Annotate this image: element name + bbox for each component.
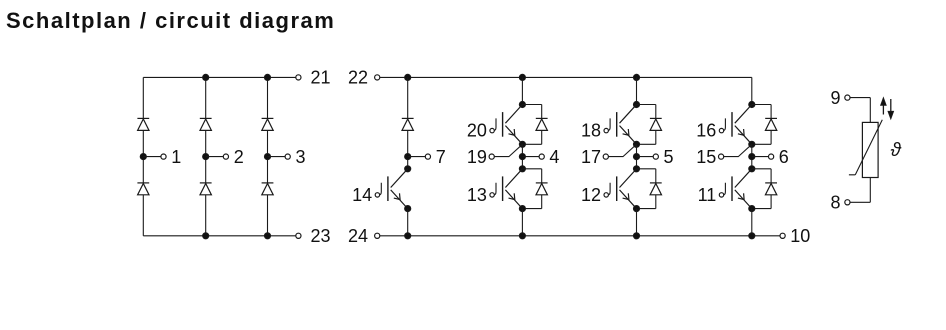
wire rectifier leg 3 middle	[267, 130, 269, 183]
wire rectifier leg 1 lower	[142, 195, 144, 236]
node emitter top IGBT 18	[633, 141, 639, 147]
wire to terminal 4	[522, 156, 539, 158]
transistor IGBT (gate pin 11)	[735, 169, 752, 209]
wire rectifier leg 2 lower	[205, 195, 207, 236]
terminal 7	[425, 154, 430, 159]
terminal 18 (gate)	[604, 128, 608, 132]
node phase tap 4	[519, 154, 525, 160]
terminal 9	[845, 95, 850, 100]
arrow down (temperature)	[890, 99, 892, 113]
wire collector stub leg 2	[636, 77, 638, 104]
transistor IGBT (gate pin 20)	[505, 105, 522, 145]
terminal 12 (gate)	[604, 193, 608, 197]
wire rectifier leg 3 upper	[267, 77, 269, 118]
svg-text:19: 19	[467, 147, 487, 167]
junction top rail	[264, 74, 270, 80]
node phase tap 6	[749, 154, 755, 160]
terminal 24	[375, 233, 380, 238]
transistor IGBT (gate pin 14)	[391, 169, 408, 209]
svg-text:1: 1	[171, 147, 181, 167]
svg-text:5: 5	[664, 147, 674, 167]
wire freewheel diode branch bottom leg 3	[752, 168, 771, 170]
node collector bottom IGBT 12	[633, 166, 639, 172]
junction bottom rail	[264, 233, 270, 239]
wire freewheel diode branch bottom leg 2	[637, 168, 656, 170]
svg-text:20: 20	[467, 121, 487, 141]
terminal 15 (aux emitter)	[719, 154, 724, 159]
diode freewheel bottom leg 3	[765, 182, 777, 184]
node collector top IGBT 20	[519, 101, 525, 107]
wire rectifier leg 1 middle	[142, 130, 144, 183]
terminal 13 (gate)	[490, 193, 494, 197]
node collector bottom IGBT 11	[749, 166, 755, 172]
diode D7 (chopper)	[402, 117, 414, 119]
node collector bottom IGBT 13	[519, 166, 525, 172]
terminal 1	[161, 154, 166, 159]
terminal 14 (gate)	[375, 193, 379, 197]
diode D6 (lower, phase 3)	[262, 182, 274, 184]
svg-text:12: 12	[581, 185, 601, 205]
svg-text:14: 14	[352, 185, 372, 205]
wire rectifier leg 1 upper	[142, 77, 144, 118]
junction top rail leg 1	[519, 74, 525, 80]
terminal 16 (gate)	[719, 128, 723, 132]
node phase tap 5	[633, 154, 639, 160]
svg-text:23: 23	[311, 226, 331, 246]
transistor IGBT (gate pin 18)	[620, 105, 637, 145]
svg-text:17: 17	[581, 147, 601, 167]
wire freewheel diode branch top leg 1	[522, 104, 541, 106]
wire to terminal 2	[206, 156, 224, 158]
node emitter top IGBT 16	[749, 141, 755, 147]
svg-text:13: 13	[467, 185, 487, 205]
node emitter bottom IGBT 11	[749, 206, 755, 212]
node emitter bottom IGBT 13	[519, 206, 525, 212]
thermistor R (NTC) body	[862, 122, 878, 177]
wire aux emitter 19	[494, 144, 522, 156]
terminal 6 (AC output)	[769, 154, 774, 159]
junction bottom rail leg 3	[749, 233, 755, 239]
terminal 3	[285, 154, 290, 159]
svg-text:18: 18	[581, 121, 601, 141]
terminal 4 (AC output)	[539, 154, 544, 159]
wire chopper upper	[407, 77, 409, 118]
wire rectifier leg 3 lower	[267, 195, 269, 236]
diode freewheel top leg 1	[536, 117, 548, 119]
node collector top IGBT 16	[749, 101, 755, 107]
diode D1 (upper, phase 1)	[137, 117, 149, 119]
diode freewheel bottom leg 1	[536, 182, 548, 184]
svg-text:Schaltplan / circuit diagram: Schaltplan / circuit diagram	[6, 8, 335, 33]
wire to terminal 5	[637, 156, 654, 158]
wire rectifier leg 2 middle	[205, 130, 207, 183]
diode D5 (upper, phase 3)	[262, 117, 274, 119]
transistor IGBT (gate pin 16)	[735, 105, 752, 145]
wire emitter stub leg 2	[636, 209, 638, 236]
node emitter bottom IGBT 12	[633, 206, 639, 212]
wire emitter stub leg 3	[751, 209, 753, 236]
wire to terminal 6	[752, 156, 769, 158]
terminal 8	[845, 200, 850, 205]
terminal 2	[223, 154, 228, 159]
wire chopper lower	[407, 209, 409, 236]
junction bottom rail	[203, 233, 209, 239]
svg-text:2: 2	[234, 147, 244, 167]
transistor IGBT (gate pin 12)	[620, 169, 637, 209]
diode D2 (lower, phase 1)	[137, 182, 149, 184]
junction top rail leg 2	[633, 74, 639, 80]
svg-text:7: 7	[436, 147, 446, 167]
terminal 22	[375, 75, 380, 80]
terminal 23	[296, 233, 301, 238]
node collector top IGBT 18	[633, 101, 639, 107]
diode freewheel top leg 3	[765, 117, 777, 119]
svg-text:11: 11	[698, 185, 717, 205]
wire thermistor bottom	[869, 178, 871, 203]
wire emitter stub leg 1	[521, 209, 523, 236]
node phase 3 junction	[264, 154, 270, 160]
wire phase line leg 2	[636, 144, 638, 169]
svg-text:8: 8	[830, 193, 840, 213]
junction bottom rail leg 1	[519, 233, 525, 239]
wire thermistor top	[850, 97, 870, 99]
svg-text:15: 15	[696, 147, 716, 167]
terminal 5 (AC output)	[653, 154, 658, 159]
node IGBT 14 collector	[405, 166, 411, 172]
wire chopper mid	[407, 130, 409, 168]
wire to terminal 7	[408, 156, 426, 158]
wire phase line leg 3	[751, 144, 753, 169]
wire to terminal 1	[143, 156, 161, 158]
wire collector stub leg 3	[751, 77, 753, 104]
wire inverter bottom rail	[380, 235, 780, 237]
svg-text:9: 9	[830, 88, 840, 108]
wire freewheel diode branch top leg 3	[752, 104, 771, 106]
terminal 19 (aux emitter)	[489, 154, 494, 159]
wire freewheel diode branch top leg 2	[637, 104, 656, 106]
wire phase line leg 1	[521, 144, 523, 169]
svg-text:24: 24	[348, 226, 368, 246]
junction chopper bottom	[405, 233, 411, 239]
terminal 20 (gate)	[490, 128, 494, 132]
wire aux emitter 15	[724, 144, 752, 156]
terminal 21	[296, 75, 301, 80]
wire collector stub leg 1	[521, 77, 523, 104]
transistor IGBT (gate pin 13)	[505, 169, 522, 209]
svg-text:3: 3	[296, 147, 306, 167]
diode D4 (lower, phase 2)	[200, 182, 212, 184]
wire to terminal 3	[268, 156, 286, 158]
wire rectifier top rail	[143, 76, 295, 78]
wire inverter top rail	[380, 76, 752, 78]
node emitter top IGBT 20	[519, 141, 525, 147]
svg-text:10: 10	[790, 226, 810, 246]
terminal 17 (aux emitter)	[603, 154, 608, 159]
junction bottom rail leg 2	[633, 233, 639, 239]
node terminal 7 tap	[405, 154, 411, 160]
svg-text:ϑ: ϑ	[891, 140, 902, 161]
arrow up (resistance)	[882, 104, 884, 115]
svg-text:6: 6	[779, 147, 789, 167]
node phase 2 junction	[203, 154, 209, 160]
diode D3 (upper, phase 2)	[200, 117, 212, 119]
terminal 10	[780, 233, 785, 238]
diode freewheel top leg 2	[650, 117, 662, 119]
wire rectifier bottom rail	[143, 235, 295, 237]
thermistor diagonal stroke	[849, 120, 882, 175]
diode freewheel bottom leg 2	[650, 182, 662, 184]
svg-text:22: 22	[348, 68, 368, 88]
junction top rail	[203, 74, 209, 80]
junction chopper top	[405, 74, 411, 80]
wire rectifier leg 2 upper	[205, 77, 207, 118]
terminal 11 (gate)	[719, 193, 723, 197]
wire aux emitter 17	[608, 144, 636, 156]
wire freewheel diode branch bottom leg 1	[522, 168, 541, 170]
node phase 1 junction	[140, 154, 146, 160]
svg-text:21: 21	[311, 68, 331, 88]
node IGBT 14 emitter	[405, 206, 411, 212]
svg-text:16: 16	[696, 121, 716, 141]
svg-text:4: 4	[549, 147, 559, 167]
